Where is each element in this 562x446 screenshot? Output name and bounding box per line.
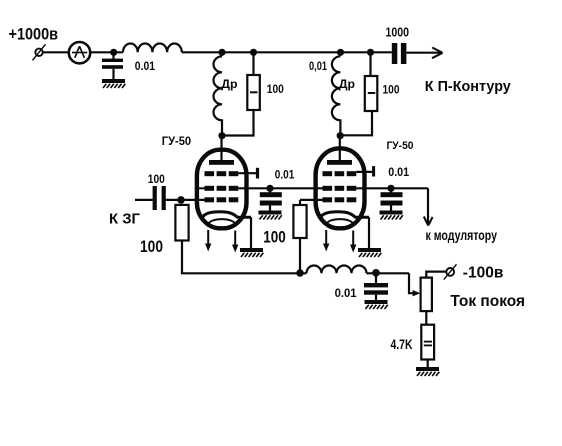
ammeter A1 <box>69 42 90 63</box>
heater leads with arrows tube 1 <box>207 230 209 244</box>
grid rows tube 2 <box>323 171 357 202</box>
svg-text:100: 100 <box>148 172 165 186</box>
wire <box>427 360 429 368</box>
cathode tube 2 <box>320 212 370 219</box>
svg-text:100: 100 <box>267 82 284 96</box>
wire cathode ground 1 <box>250 217 252 248</box>
svg-text:100: 100 <box>263 228 286 246</box>
wire to modulator with arrow <box>427 188 429 224</box>
ground <box>102 79 125 88</box>
inductor L1 <box>123 43 182 52</box>
potentiometer R5 <box>421 278 432 312</box>
wire <box>91 51 123 53</box>
wire input K ZG <box>135 199 153 201</box>
capacitor C2 1000 <box>392 43 398 64</box>
svg-text:0,01: 0,01 <box>309 59 327 73</box>
wire cathode ground 2 <box>368 217 370 248</box>
inductor L4 bias choke <box>307 266 367 274</box>
cathode tube 1 <box>202 212 252 219</box>
grid rows tube 1 <box>205 171 239 202</box>
ground <box>240 248 263 257</box>
wire <box>43 51 68 53</box>
svg-text:-100в: -100в <box>463 265 504 282</box>
wire to potentiometer wiper <box>409 273 414 293</box>
wire pot top to terminal <box>426 272 446 278</box>
wire screen lead right 2 <box>356 187 428 189</box>
wire anode lead 2 <box>339 136 341 160</box>
resistor R3 100 grid leak 1 <box>175 205 188 241</box>
node bias left <box>296 269 304 277</box>
resistor R6 4.7K <box>421 325 434 360</box>
node anode 1 <box>218 132 225 139</box>
tube U1 GU-50 envelope <box>197 150 247 229</box>
choke L3 Dr (anode choke tube 2) <box>332 56 341 133</box>
wire g3 lead 1 <box>238 172 256 174</box>
node grid 1 <box>177 196 185 204</box>
wire screen bus <box>238 187 322 189</box>
tube U2 GU-50 envelope <box>316 148 365 228</box>
wire <box>367 272 410 274</box>
wire to P-contour with arrow <box>406 52 441 54</box>
node screen 1 <box>266 185 273 192</box>
node -100V terminal <box>446 268 454 276</box>
heater tube 2 <box>327 219 353 229</box>
svg-text:ГУ-50: ГУ-50 <box>387 140 414 152</box>
node anode 2 <box>337 132 344 139</box>
node +1000V input terminal <box>35 49 42 56</box>
ground <box>358 248 381 257</box>
svg-text:+1000в: +1000в <box>9 25 59 44</box>
ground <box>416 367 439 376</box>
resistor R4 100 grid leak 2 <box>299 200 301 205</box>
wire g3 lead 2 <box>356 171 372 173</box>
anode plate 2 <box>327 160 352 165</box>
wire grid 2 lead <box>300 199 323 201</box>
wire g2 stub left 1 <box>199 187 205 189</box>
junction dots on rail <box>110 49 374 56</box>
svg-text:0.01: 0.01 <box>335 286 357 300</box>
node bias right <box>372 269 380 277</box>
heater tube 1 <box>209 219 235 229</box>
wire anode lead 1 <box>220 136 222 160</box>
wire pot bottom <box>425 311 427 325</box>
svg-text:К ЗГ: К ЗГ <box>109 211 140 228</box>
capacitor C6 0.01 bias bypass <box>375 273 377 283</box>
wire main rail <box>182 51 392 53</box>
svg-text:100: 100 <box>383 82 400 96</box>
capacitor C3 0.01 screen bypass 1 <box>269 188 271 192</box>
svg-text:0.01: 0.01 <box>275 168 295 182</box>
capacitor C1 0.01 to ground <box>112 52 114 59</box>
ground <box>365 300 388 309</box>
svg-text:Ток покоя: Ток покоя <box>450 293 525 310</box>
resistor R2 100 <box>369 52 371 76</box>
ground <box>259 211 282 220</box>
anode plate 1 <box>209 160 234 165</box>
wire bias bus <box>181 272 307 274</box>
svg-text:ГУ-50: ГУ-50 <box>162 134 191 148</box>
capacitor C4 0.01 screen bypass 2 <box>390 188 392 192</box>
capacitor C5 100 coupling <box>153 186 157 210</box>
svg-text:Др: Др <box>221 77 237 91</box>
ground <box>380 211 403 220</box>
choke L2 Dr (anode choke tube 1) <box>214 56 223 133</box>
node screen 2 <box>387 185 394 192</box>
svg-text:0.01: 0.01 <box>388 165 409 179</box>
wire <box>181 241 183 274</box>
svg-text:к модулятору: к модулятору <box>426 228 498 243</box>
heater leads with arrows tube 2 <box>325 230 327 244</box>
svg-text:К П-Контуру: К П-Контуру <box>425 78 512 95</box>
svg-text:100: 100 <box>140 238 163 256</box>
svg-text:1000: 1000 <box>386 25 410 39</box>
resistor R1 100 <box>252 52 254 75</box>
svg-text:Др: Др <box>339 77 355 91</box>
svg-text:0.01: 0.01 <box>135 59 155 73</box>
svg-text:4.7K: 4.7K <box>391 336 413 352</box>
wire grid 1 lead <box>166 199 205 201</box>
